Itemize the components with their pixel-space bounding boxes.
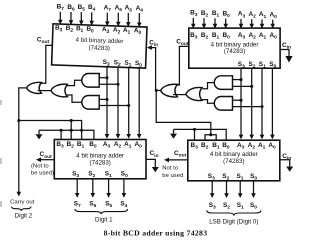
svg-text:(74283): (74283) (88, 44, 110, 52)
svg-text:(74283): (74283) (224, 48, 245, 55)
svg-text:be used: be used (162, 173, 183, 179)
svg-text:Digit 1: Digit 1 (95, 217, 113, 224)
svg-text:be used): be used) (31, 170, 54, 176)
svg-text:Carry out: Carry out (10, 200, 35, 206)
svg-text:(Not to: (Not to (31, 164, 49, 170)
svg-text:(74283): (74283) (90, 159, 111, 166)
svg-text:(74283): (74283) (223, 158, 244, 165)
svg-text:LSB Digit (Digit 0): LSB Digit (Digit 0) (209, 219, 258, 226)
svg-text:Not to: Not to (162, 165, 178, 171)
svg-text:Digit 2: Digit 2 (15, 213, 33, 220)
svg-text:8-bit BCD adder using 74283: 8-bit BCD adder using 74283 (104, 229, 208, 238)
